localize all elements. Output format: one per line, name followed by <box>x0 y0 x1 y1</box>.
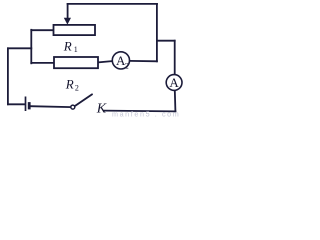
svg-text:1: 1 <box>74 45 78 54</box>
svg-text:R: R <box>63 38 72 53</box>
svg-text:2: 2 <box>125 62 129 71</box>
svg-text:A: A <box>169 75 179 90</box>
svg-text:K: K <box>96 101 107 116</box>
svg-text:R: R <box>65 76 74 91</box>
svg-text:2: 2 <box>75 83 79 92</box>
svg-text:manfen5 . com: manfen5 . com <box>112 110 180 119</box>
